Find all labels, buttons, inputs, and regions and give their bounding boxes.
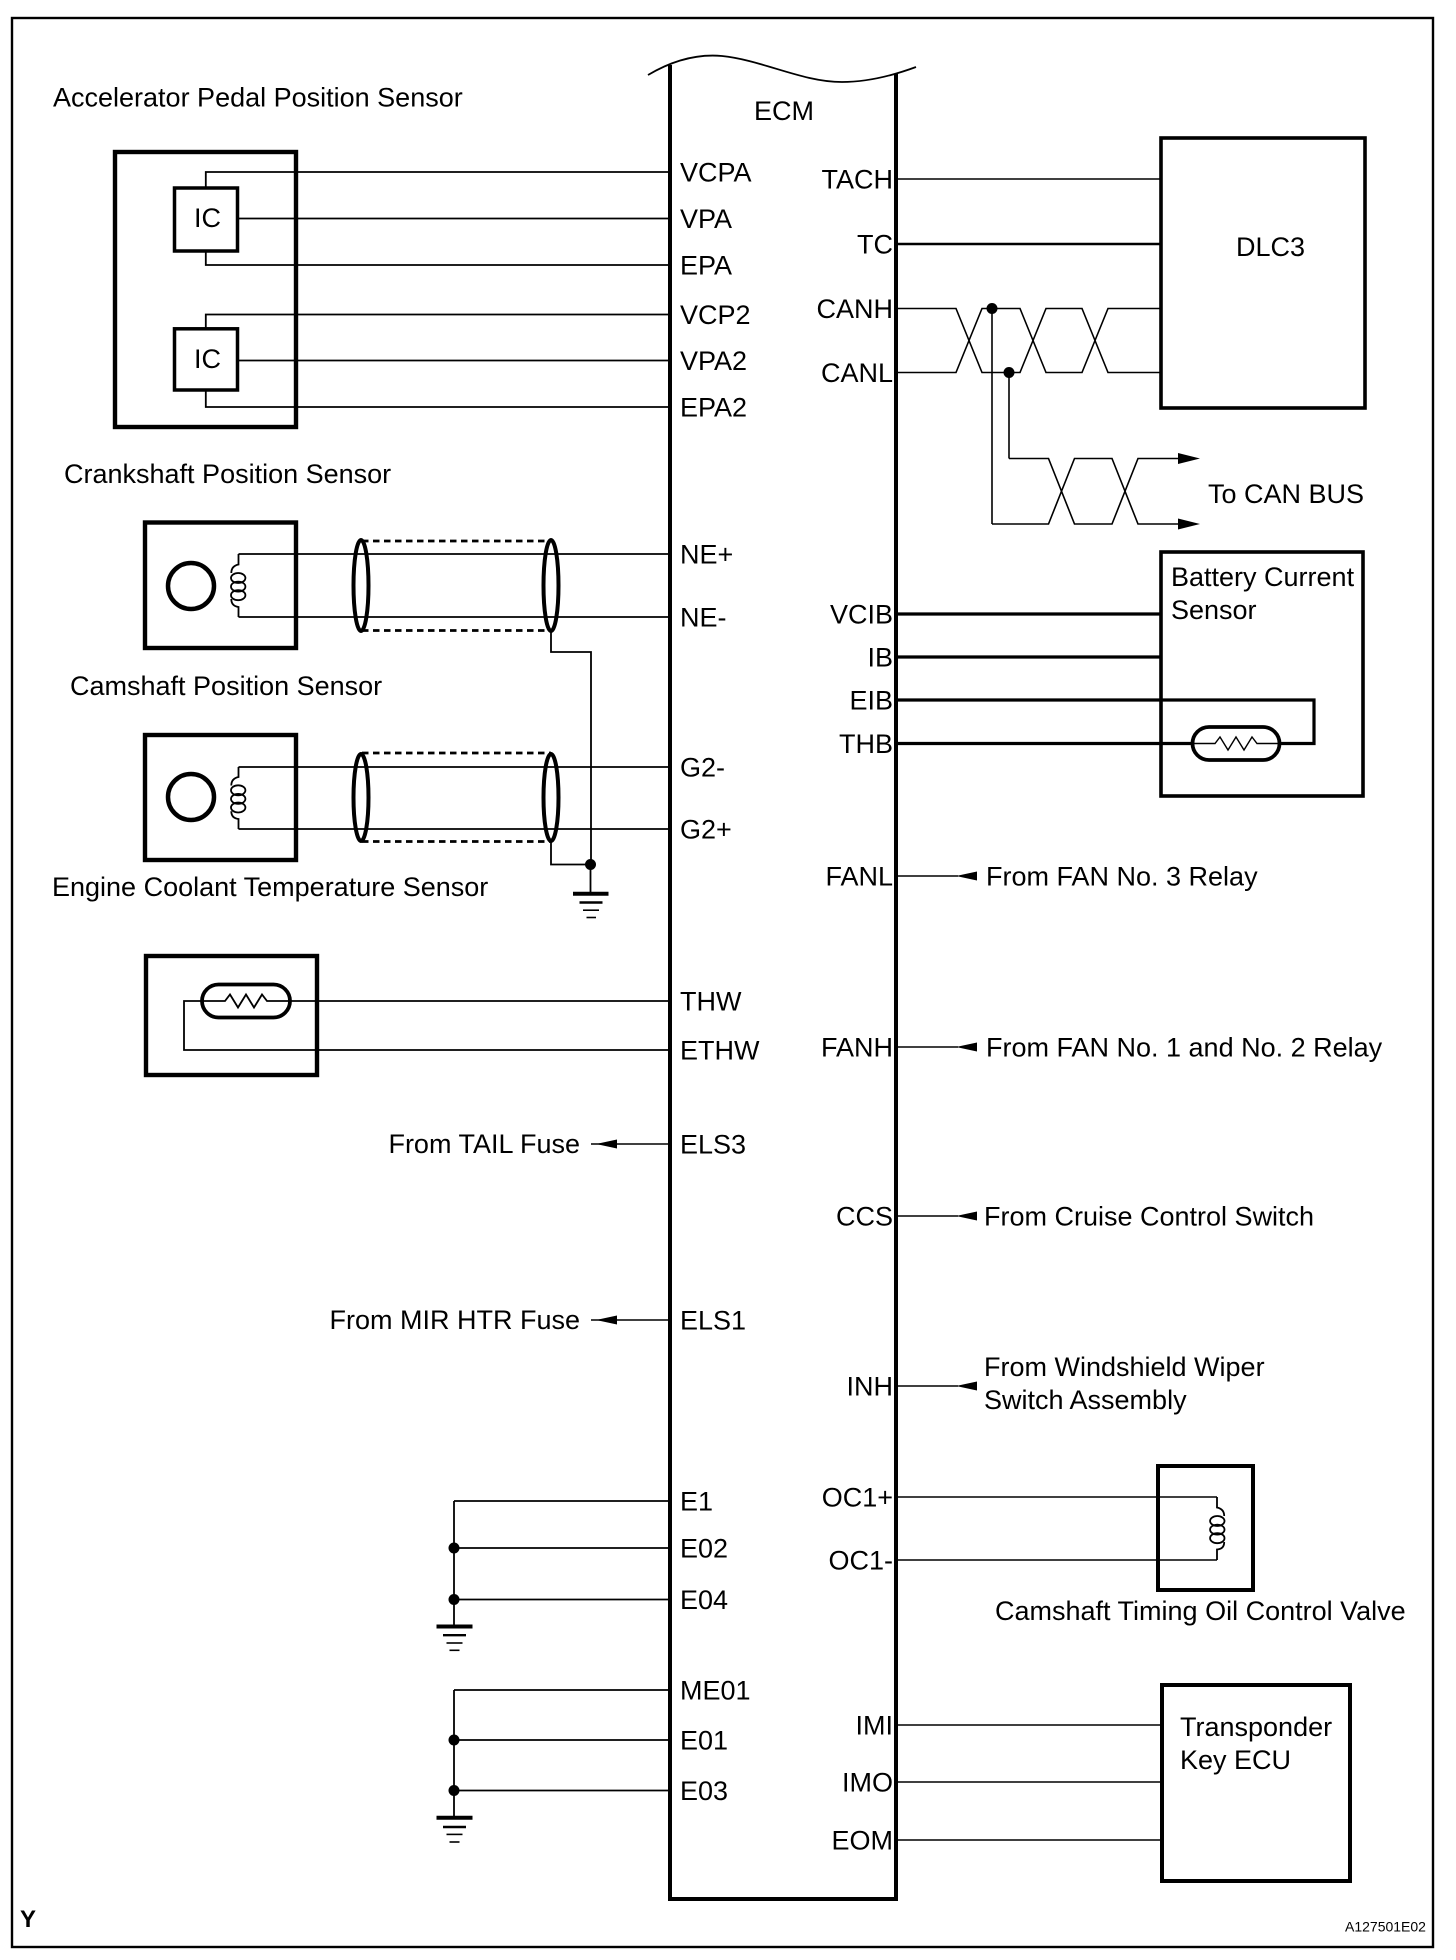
camshaft sensor rotor circle	[168, 774, 214, 820]
svg-text:EPA2: EPA2	[680, 392, 747, 422]
arrowhead FANL	[956, 872, 977, 881]
junction dot E04	[449, 1594, 460, 1605]
accelerator pedal position sensor box	[115, 152, 296, 427]
svg-text:G2-: G2-	[680, 752, 725, 782]
svg-text:ETHW: ETHW	[680, 1035, 760, 1065]
wire EPA2	[206, 390, 668, 407]
svg-text:From MIR HTR Fuse: From MIR HTR Fuse	[329, 1305, 580, 1335]
arrowhead CCS	[956, 1212, 977, 1221]
svg-text:Camshaft Timing Oil Control Va: Camshaft Timing Oil Control Valve	[995, 1596, 1406, 1626]
shield dashed line bottom (NE)	[362, 629, 551, 632]
camshaft position sensor box	[145, 735, 296, 860]
Battery Current Sensor box	[1161, 552, 1363, 796]
svg-text:IMI: IMI	[856, 1710, 894, 1740]
svg-text:E1: E1	[680, 1486, 713, 1516]
svg-text:Engine Coolant Temperature Sen: Engine Coolant Temperature Sensor	[52, 872, 488, 902]
svg-text:VPA2: VPA2	[680, 346, 747, 376]
svg-text:E03: E03	[680, 1776, 728, 1806]
oil control valve solenoid coil	[1210, 1497, 1224, 1560]
svg-text:THW: THW	[680, 986, 742, 1016]
svg-text:VCP2: VCP2	[680, 300, 751, 330]
svg-text:CANH: CANH	[816, 294, 893, 324]
svg-text:VCPA: VCPA	[680, 157, 752, 187]
svg-text:A127501E02: A127501E02	[1345, 1919, 1426, 1935]
wire FANL	[896, 875, 958, 877]
IC 2 box	[175, 329, 238, 390]
ECM box left border	[668, 65, 672, 1899]
wire INH	[896, 1385, 958, 1387]
wire OC1+	[896, 1496, 1217, 1498]
wire NE+	[239, 553, 669, 555]
shield drain wire NE	[551, 630, 591, 865]
svg-text:EIB: EIB	[849, 685, 893, 715]
camshaft sensor pickup coil	[231, 767, 245, 829]
wire ELS1	[591, 1319, 668, 1321]
wire VPA	[238, 218, 669, 220]
wire TC	[896, 243, 1161, 246]
svg-text:From FAN No. 3 Relay: From FAN No. 3 Relay	[986, 861, 1258, 891]
thermistor THW	[202, 985, 290, 1018]
wire E01	[454, 1739, 668, 1741]
arrowhead ELS1	[596, 1316, 617, 1325]
ground shield	[573, 865, 609, 918]
engine coolant temperature sensor box	[146, 956, 317, 1075]
wire G2+	[239, 828, 669, 830]
ground E01/E03	[437, 1818, 473, 1842]
wire E04	[454, 1599, 668, 1601]
svg-text:OC1+: OC1+	[822, 1482, 893, 1512]
arrowhead INH	[956, 1382, 977, 1391]
ground bus wire E1/E02/E04	[453, 1501, 455, 1626]
wire VCP2	[206, 315, 668, 329]
svg-text:DLC3: DLC3	[1236, 232, 1305, 262]
svg-text:TC: TC	[857, 229, 893, 259]
thermistor THB	[1193, 727, 1316, 760]
shield clamp ellipse left (NE)	[354, 540, 369, 631]
svg-text:ECM: ECM	[754, 96, 814, 126]
svg-text:G2+: G2+	[680, 814, 732, 844]
svg-text:OC1-: OC1-	[828, 1545, 893, 1575]
DLC3 box	[1161, 138, 1365, 408]
svg-text:EPA: EPA	[680, 250, 732, 280]
wire CCS	[896, 1215, 958, 1217]
svg-text:Transponder: Transponder	[1180, 1712, 1332, 1742]
junction dot CANL	[1004, 367, 1015, 378]
svg-text:FANH: FANH	[821, 1032, 893, 1062]
shield dashed line bottom (G2)	[362, 840, 551, 843]
svg-text:EOM: EOM	[831, 1825, 893, 1855]
wire EPA	[206, 251, 668, 265]
svg-text:FANL: FANL	[825, 861, 893, 891]
shield drain wire G2	[551, 840, 591, 865]
svg-text:Switch Assembly: Switch Assembly	[984, 1385, 1187, 1415]
shield clamp ellipse right (NE)	[544, 540, 559, 631]
svg-text:To CAN BUS: To CAN BUS	[1208, 479, 1364, 509]
wire E02	[454, 1547, 668, 1549]
CAN bus twisted pair upper wire	[1009, 459, 1180, 525]
junction dot E01	[449, 1735, 460, 1746]
wire G2-	[239, 766, 669, 768]
svg-text:IB: IB	[867, 642, 893, 672]
svg-text:E02: E02	[680, 1533, 728, 1563]
svg-text:E04: E04	[680, 1585, 728, 1615]
svg-text:Crankshaft Position Sensor: Crankshaft Position Sensor	[64, 459, 391, 489]
junction dot E02	[449, 1543, 460, 1554]
CAN bus branch wire from CANL	[1008, 373, 1010, 459]
arrowhead CAN bus upper	[1178, 453, 1200, 464]
CAN bus twisted pair lower wire	[992, 459, 1180, 525]
wire VCIB	[896, 612, 1161, 615]
svg-text:From Cruise Control Switch: From Cruise Control Switch	[984, 1201, 1314, 1231]
wire IMO	[896, 1781, 1162, 1783]
wire IMI	[896, 1724, 1162, 1726]
wire NE-	[239, 616, 669, 618]
camshaft timing oil control valve box	[1158, 1466, 1253, 1590]
svg-text:IC: IC	[194, 344, 221, 374]
wire VCPA	[206, 172, 668, 188]
wire THB	[896, 742, 1193, 745]
wire ME01	[454, 1689, 668, 1691]
svg-text:Y: Y	[20, 1906, 36, 1933]
arrowhead ELS3	[596, 1140, 617, 1149]
shield dashed line top (NE)	[362, 540, 551, 543]
shield clamp ellipse left (G2)	[354, 754, 369, 841]
svg-text:VCIB: VCIB	[830, 599, 893, 629]
CAN bus branch wire from CANH	[991, 309, 993, 525]
wire E1	[454, 1500, 668, 1502]
ECM box bottom border	[668, 1897, 898, 1901]
wire THW	[290, 1000, 668, 1002]
svg-text:Accelerator Pedal Position Sen: Accelerator Pedal Position Sensor	[53, 83, 463, 113]
wire EOM	[896, 1839, 1162, 1841]
crankshaft sensor rotor circle	[168, 563, 214, 609]
wire ETHW	[184, 1001, 668, 1050]
svg-text:TACH: TACH	[822, 164, 894, 194]
svg-text:INH: INH	[847, 1371, 894, 1401]
svg-text:CANL: CANL	[821, 358, 893, 388]
wire IB	[896, 655, 1161, 658]
svg-text:NE-: NE-	[680, 602, 727, 632]
svg-text:THB: THB	[839, 729, 893, 759]
crankshaft sensor pickup coil	[231, 554, 245, 617]
junction dot shield drains	[585, 859, 596, 870]
svg-text:Battery Current: Battery Current	[1171, 562, 1355, 592]
svg-text:CCS: CCS	[836, 1201, 893, 1231]
wire E03	[454, 1790, 668, 1792]
ECM torn-paper top edge	[648, 56, 916, 82]
svg-text:Camshaft Position Sensor: Camshaft Position Sensor	[70, 671, 382, 701]
arrowhead CAN bus lower	[1178, 519, 1200, 530]
wire FANH	[896, 1046, 958, 1048]
junction dot E03	[449, 1785, 460, 1796]
svg-text:IMO: IMO	[842, 1767, 893, 1797]
svg-text:From FAN No. 1 and No. 2 Relay: From FAN No. 1 and No. 2 Relay	[986, 1032, 1383, 1062]
ground E02/E04	[437, 1627, 473, 1651]
shield dashed line top (G2)	[362, 752, 551, 755]
crankshaft position sensor box	[145, 523, 296, 649]
IC 1 box	[175, 188, 238, 251]
twisted pair CANL wire	[896, 309, 1161, 373]
wire ELS3	[591, 1143, 668, 1145]
svg-text:NE+: NE+	[680, 539, 733, 569]
svg-text:ME01: ME01	[680, 1675, 751, 1705]
svg-text:IC: IC	[194, 203, 221, 233]
svg-text:Sensor: Sensor	[1171, 595, 1257, 625]
wire OC1-	[896, 1559, 1217, 1561]
twisted pair CANH wire	[896, 309, 1161, 373]
wire TACH	[896, 178, 1161, 180]
wire EIB	[896, 700, 1314, 742]
ECM box right border	[894, 74, 898, 1899]
ground bus wire ME01/E01/E03	[453, 1690, 455, 1817]
junction dot CANH	[987, 303, 998, 314]
wire VPA2	[238, 360, 669, 362]
svg-text:From TAIL Fuse: From TAIL Fuse	[388, 1129, 580, 1159]
shield clamp ellipse right (G2)	[544, 754, 559, 841]
svg-text:VPA: VPA	[680, 204, 732, 234]
svg-text:Key ECU: Key ECU	[1180, 1745, 1291, 1775]
Transponder Key ECU box	[1162, 1685, 1350, 1881]
svg-text:ELS3: ELS3	[680, 1129, 746, 1159]
svg-text:ELS1: ELS1	[680, 1305, 746, 1335]
svg-text:E01: E01	[680, 1725, 728, 1755]
svg-text:From Windshield Wiper: From Windshield Wiper	[984, 1352, 1265, 1382]
arrowhead FANH	[956, 1043, 977, 1052]
